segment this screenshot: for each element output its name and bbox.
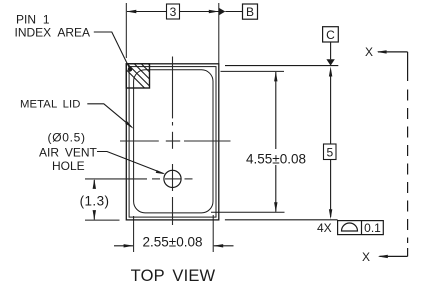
svg-text:2.55±0.08: 2.55±0.08 xyxy=(143,235,203,250)
pin 1 index area hatch xyxy=(118,61,176,91)
svg-text:AIR VENT: AIR VENT xyxy=(39,146,98,160)
top dimension 3: left extension line xyxy=(125,3,127,58)
svg-text:4.55±0.08: 4.55±0.08 xyxy=(246,152,306,167)
hole horizontal centerline xyxy=(85,178,193,180)
right dimension 4.55: dimension line with arrows xyxy=(274,71,277,212)
datum C symbol xyxy=(323,27,339,66)
top dimension 3: dimension line with arrows xyxy=(126,10,219,13)
right dimension 4.55: top extension line xyxy=(221,70,285,72)
section cutting line (dashed) xyxy=(407,52,409,257)
feature control frame: profile of a surface 0.1 xyxy=(338,221,384,235)
pin1 leader xyxy=(94,32,130,69)
svg-text:X: X xyxy=(365,45,373,59)
pin1 leader dot xyxy=(128,67,133,72)
vertical centerline xyxy=(172,57,174,226)
svg-text:TOP VIEW: TOP VIEW xyxy=(131,267,216,285)
svg-text:HOLE: HOLE xyxy=(52,159,85,173)
section X bottom arrow xyxy=(378,255,408,258)
svg-text:C: C xyxy=(326,28,335,42)
air vent hole label xyxy=(39,131,98,174)
svg-text:PIN 1: PIN 1 xyxy=(16,13,50,27)
bottom dimension 2.55: left extension line xyxy=(133,216,135,252)
svg-text:B: B xyxy=(246,5,254,19)
bottom dimension 2.55: right extension line xyxy=(212,215,214,252)
metal lid outline xyxy=(134,70,213,213)
svg-text:5: 5 xyxy=(326,145,333,159)
dimension (1.3): bottom extension line xyxy=(85,219,120,221)
datum 5 reference line (bottom edge extended) xyxy=(225,219,338,221)
air vent leader xyxy=(97,152,166,175)
datum C reference line (top edge extended) xyxy=(225,65,338,67)
PIN 1 INDEX AREA label xyxy=(15,13,91,40)
basic dimension box 3 xyxy=(167,4,180,19)
svg-text:(1.3): (1.3) xyxy=(80,194,110,209)
dimension (1.3): dimension line with arrows xyxy=(93,179,96,220)
svg-text:METAL LID: METAL LID xyxy=(20,99,81,111)
metal lid leader xyxy=(87,104,134,129)
horizontal centerline xyxy=(120,140,231,142)
package body inner outline xyxy=(129,67,216,218)
svg-text:4X: 4X xyxy=(317,221,332,235)
bottom dimension 2.55: outside arrows xyxy=(114,244,234,247)
section X top arrow xyxy=(377,50,408,53)
air vent hole xyxy=(164,170,181,187)
svg-text:(Ø0.5): (Ø0.5) xyxy=(48,131,86,145)
right dimension 4.55: bottom extension line xyxy=(211,211,285,213)
package body outer outline xyxy=(126,64,219,220)
top dimension 3: right extension line xyxy=(218,3,220,64)
svg-text:3: 3 xyxy=(170,5,177,19)
svg-text:X: X xyxy=(362,250,370,264)
basic dimension 5 with leader arrows xyxy=(324,67,337,220)
svg-text:INDEX AREA: INDEX AREA xyxy=(15,26,91,40)
svg-text:0.1: 0.1 xyxy=(364,221,381,235)
datum B symbol xyxy=(219,4,258,19)
